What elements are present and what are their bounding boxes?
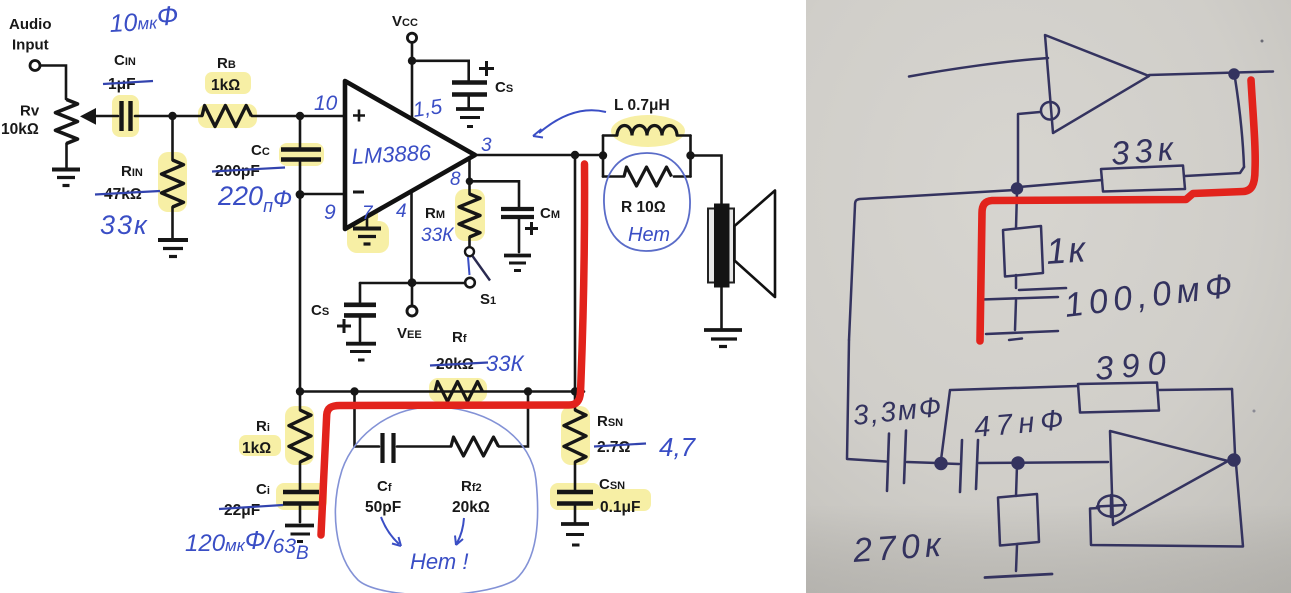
wire L-R box bottom left segment xyxy=(603,175,624,178)
highlight RB body xyxy=(198,104,257,128)
node pin8 junction xyxy=(466,178,474,186)
resistor 390 box xyxy=(1078,383,1159,413)
wire L-R box right side xyxy=(689,136,692,177)
wire 390 box to right corner xyxy=(1158,389,1232,390)
wire CC to pin9 node xyxy=(299,162,302,194)
svg-text:1kΩ: 1kΩ xyxy=(242,440,271,457)
highlight pin7 ground xyxy=(352,196,378,226)
ground below Ci xyxy=(285,526,314,542)
plus sign CM xyxy=(525,222,538,235)
wire A1 output xyxy=(1149,72,1273,76)
node 3.3uF-47nF junction xyxy=(936,458,947,469)
node 47nF-270k junction xyxy=(1013,458,1024,469)
plus sign Cs top xyxy=(479,61,494,76)
wire CM bottom to ground xyxy=(518,219,521,252)
wire 390 loop left vertical xyxy=(941,390,950,460)
Vcc terminal xyxy=(407,33,416,42)
wire A2 feedback hook xyxy=(1090,464,1243,547)
wire Cf to Rf2 xyxy=(397,445,451,448)
handwritten cloud around Cf Rf2 xyxy=(335,407,537,593)
svg-text:LM3886: LM3886 xyxy=(351,140,432,169)
wire input to A1 xyxy=(909,58,1048,77)
highlight Ri value xyxy=(239,435,281,456)
node at RIN junction xyxy=(168,112,176,120)
wire CIN to RB through RIN node xyxy=(135,115,202,118)
wire junction to 33k left end xyxy=(1019,180,1102,187)
wire 270k to ground xyxy=(1016,545,1017,571)
blue ink mark on switch xyxy=(468,257,470,275)
node feedback rail right xyxy=(571,387,579,395)
highlight Ri body xyxy=(285,406,314,465)
red marker trace left schematic xyxy=(321,164,585,535)
node feedback junction xyxy=(1012,184,1022,194)
resistor RIN xyxy=(162,160,184,207)
wire output node down xyxy=(1235,78,1244,167)
wire pin9 node to op-amp xyxy=(300,193,344,196)
wire L-R box top left segment xyxy=(603,134,617,137)
wire 3.3uF to junction xyxy=(907,462,937,463)
ground below Cs top xyxy=(456,109,484,127)
wire Vee rail left end down to bottom Cs xyxy=(359,283,362,302)
wire CSN bottom to ground xyxy=(574,506,577,522)
wire junction left long xyxy=(849,190,1015,340)
op-amp A1 inverting bubble xyxy=(1041,102,1059,120)
svg-text:Rv: Rv xyxy=(20,103,40,120)
resistor 270k box xyxy=(998,494,1039,546)
svg-text:33к: 33к xyxy=(1109,129,1179,172)
wire pin8 node to CM xyxy=(470,181,520,207)
svg-text:390: 390 xyxy=(1093,343,1175,387)
resistor Ri xyxy=(289,410,311,462)
wire pin10 node down to CC xyxy=(299,116,302,147)
capacitor CM xyxy=(501,209,534,217)
wire L-R box to speaker xyxy=(691,156,722,206)
highlight CIN xyxy=(112,95,139,137)
node at pin10 junction xyxy=(296,112,304,120)
op-amp A2 bottom xyxy=(1110,431,1228,525)
highlight RIN body xyxy=(158,152,187,212)
highlight RB value xyxy=(205,72,251,94)
resistor RM xyxy=(459,194,480,237)
capacitor 100uF bottom plate xyxy=(982,297,1058,300)
switch S1 bottom contact xyxy=(465,278,475,288)
resistor R 10ohm xyxy=(624,167,672,186)
node A2 output xyxy=(1229,455,1240,466)
ground pin7 xyxy=(353,229,381,245)
resistor Rf2 xyxy=(451,437,499,456)
wire op-amp output xyxy=(474,154,603,157)
capacitor 100uF top plate xyxy=(1019,288,1066,290)
capacitor CC xyxy=(281,150,321,160)
svg-text:Audio: Audio xyxy=(9,16,52,33)
svg-text:20kΩ: 20kΩ xyxy=(452,499,490,516)
wire pin9 node down to feedback rail xyxy=(299,194,302,392)
ground below CM xyxy=(504,256,531,271)
node L-R left xyxy=(599,151,607,159)
wire Vee rail xyxy=(360,282,470,285)
highlight Rf body xyxy=(429,378,487,402)
handwritten arrow to Cf xyxy=(381,517,401,546)
svg-text:22μF: 22μF xyxy=(224,502,260,519)
red marker trace photo xyxy=(980,80,1255,341)
wire junction down to 1k xyxy=(1016,191,1017,228)
capacitor Cf xyxy=(383,433,394,463)
pin7 ground stub xyxy=(366,217,369,227)
capacitor Cs bottom xyxy=(344,305,376,316)
Vee terminal xyxy=(407,306,417,316)
speaker body xyxy=(708,209,734,283)
plus sign Cs bottom xyxy=(337,319,351,333)
highlight CSN value xyxy=(597,489,651,511)
wire bottom Cs to ground xyxy=(359,318,362,341)
op-amp minus input marker xyxy=(353,191,364,194)
wire junction down to 270k xyxy=(1016,465,1017,496)
capacitor CSN xyxy=(557,492,593,504)
capacitor Ci xyxy=(283,492,319,504)
ground below 100uF xyxy=(986,331,1058,334)
wire input jack to Rv top xyxy=(40,66,66,100)
wire left column down to 3.3uF xyxy=(847,340,886,462)
resistor RSN xyxy=(564,410,586,462)
wire L-R box left side xyxy=(602,136,605,177)
wire output node down to feedback rail xyxy=(574,155,577,392)
inductor L xyxy=(617,126,677,136)
handwritten arrow to Rf2 xyxy=(455,518,464,545)
wire RIN node down to RIN xyxy=(171,116,174,160)
wire cap to ground xyxy=(1015,300,1016,330)
ground below CSN xyxy=(561,524,589,545)
svg-text:R 10Ω: R 10Ω xyxy=(621,199,666,216)
wire pin4 down to Vee rail xyxy=(410,192,413,283)
wire RSN top xyxy=(574,392,577,411)
highlight RM body xyxy=(455,189,485,241)
node Vee rail junction xyxy=(408,278,417,287)
wire Ci bottom to ground xyxy=(299,506,302,522)
op-amp A2 inverting bubble xyxy=(1098,496,1125,517)
resistor 1k box xyxy=(1003,226,1043,277)
svg-text:Нет: Нет xyxy=(628,224,670,246)
svg-text:4,7: 4,7 xyxy=(659,432,697,462)
svg-text:1kΩ: 1kΩ xyxy=(211,77,240,94)
op-amp plus input marker xyxy=(353,110,365,122)
wire Rv bottom to ground xyxy=(65,144,68,168)
svg-text:1,5: 1,5 xyxy=(411,95,443,122)
wire L-R box top right segment xyxy=(677,134,691,137)
highlight CSN plates xyxy=(550,483,601,510)
speaker horn xyxy=(735,191,776,298)
node Vcc junction xyxy=(408,57,416,65)
handwritten curved arrow to output xyxy=(539,110,606,133)
op-amp U1 LM3886 xyxy=(345,81,475,229)
svg-text:50pF: 50pF xyxy=(365,499,401,516)
wire A2 apex to output node xyxy=(1228,460,1233,461)
capacitor 47nF plates xyxy=(960,440,962,492)
svg-text:1к: 1к xyxy=(1045,228,1089,272)
ground below 270k xyxy=(985,574,1052,578)
wire 390 loop right vertical xyxy=(1232,389,1235,454)
node L-R right xyxy=(686,151,694,159)
node feedback rail left xyxy=(296,387,304,395)
left schematic background xyxy=(0,0,806,593)
photo background xyxy=(806,0,1291,593)
wire pin10 node to op-amp xyxy=(300,115,344,118)
svg-text:Input: Input xyxy=(12,37,49,54)
wire bubble to left column xyxy=(1018,112,1040,185)
ground below speaker xyxy=(704,330,742,347)
wire Ri bottom to Ci xyxy=(299,462,302,490)
wire wiper to CIN xyxy=(95,115,118,118)
wire Ri top xyxy=(299,392,302,411)
ground below RIN xyxy=(158,240,188,257)
highlight CC plates xyxy=(279,143,324,166)
Rv wiper arrow xyxy=(80,108,96,125)
wire pin8 node down xyxy=(468,155,471,181)
svg-text:220пФ: 220пФ xyxy=(217,181,292,216)
wire RSN bottom to CSN xyxy=(574,462,577,490)
node at pin9 junction xyxy=(296,190,305,199)
ground below Rv xyxy=(52,170,80,186)
wire Vee rail to Vee terminal xyxy=(411,283,414,306)
svg-text:10: 10 xyxy=(314,92,338,115)
svg-text:8: 8 xyxy=(450,169,461,190)
wire Cf-Rf2 branch right drop xyxy=(499,392,528,447)
resistor 33k box xyxy=(1101,166,1185,192)
switch S1 lever xyxy=(473,256,491,281)
op-amp A1 top xyxy=(1045,35,1149,133)
ground below Cs bottom xyxy=(346,344,376,360)
svg-text:3: 3 xyxy=(481,135,492,156)
svg-text:2.7Ω: 2.7Ω xyxy=(597,439,631,456)
wire junction to 47nF xyxy=(945,462,959,465)
wire pin8 dot down to RM xyxy=(468,181,471,194)
highlight inductor xyxy=(611,115,685,147)
paper speck xyxy=(1261,40,1264,43)
svg-text:270к: 270к xyxy=(851,526,947,570)
capacitor Cs top xyxy=(452,83,487,95)
switch S1 top contact xyxy=(465,247,474,256)
svg-text:0.1μF: 0.1μF xyxy=(600,499,641,516)
svg-text:L 0.7μH: L 0.7μH xyxy=(614,97,670,114)
feedback rail xyxy=(300,390,584,393)
wire speaker to ground xyxy=(720,287,723,328)
potentiometer Rv xyxy=(56,100,78,144)
capacitor CIN xyxy=(122,101,131,131)
wire down-leg to 33k right end xyxy=(1185,167,1244,176)
resistor Rf xyxy=(435,382,483,402)
svg-text:33К: 33К xyxy=(421,225,455,246)
svg-text:9: 9 xyxy=(324,201,336,224)
wire RB to pin10 node xyxy=(252,115,300,118)
node output to L-R xyxy=(571,151,579,159)
wire Cs top cap to ground xyxy=(467,97,470,108)
capacitor 3.3uF plates xyxy=(887,434,889,492)
highlight RSN body xyxy=(561,406,590,465)
wire 47nF to A2 input xyxy=(979,462,1108,463)
wire RIN bottom to ground xyxy=(171,207,174,238)
svg-text:4: 4 xyxy=(396,201,407,222)
handwritten ellipse around R10 xyxy=(604,153,690,251)
wire 1k to cap xyxy=(1015,275,1018,288)
resistor RB xyxy=(202,106,251,127)
node feedback rail Cf branch right xyxy=(524,387,532,395)
wire Vcc terminal down xyxy=(411,43,414,58)
svg-text:Нет !: Нет ! xyxy=(410,549,468,574)
svg-text:33К: 33К xyxy=(486,351,524,376)
svg-text:7: 7 xyxy=(362,203,374,224)
node A1 output xyxy=(1230,70,1239,79)
input terminal xyxy=(30,61,40,71)
wire RM bottom to switch xyxy=(468,237,471,247)
svg-text:33к: 33к xyxy=(100,210,149,240)
wire Vcc node down into op-amp xyxy=(411,61,414,118)
wire L-R box bottom right segment xyxy=(674,175,691,178)
wire 390 loop top left xyxy=(951,386,1078,390)
svg-text:10kΩ: 10kΩ xyxy=(1,121,39,138)
wire Vcc node to Cs top xyxy=(412,61,469,81)
wire Cf-Rf2 branch left drop xyxy=(355,392,380,447)
node feedback rail Cf branch left xyxy=(350,387,358,395)
highlight Ci plates xyxy=(276,483,327,510)
